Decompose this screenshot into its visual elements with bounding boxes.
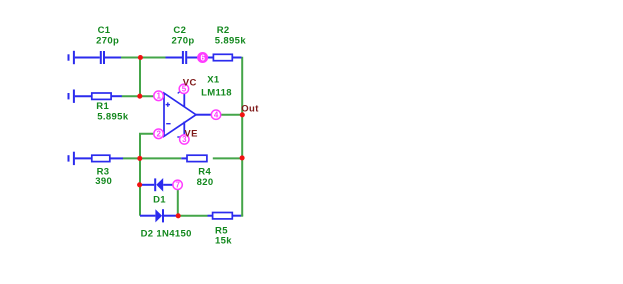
svg-text:270p: 270p [96, 35, 119, 46]
svg-text:820: 820 [197, 177, 214, 188]
svg-text:4: 4 [214, 111, 219, 120]
svg-text:5.895k: 5.895k [215, 35, 247, 46]
svg-text:VC: VC [183, 77, 197, 88]
svg-text:1: 1 [156, 92, 161, 101]
svg-text:D1: D1 [153, 195, 166, 206]
svg-text:15k: 15k [215, 236, 232, 247]
svg-text:R2: R2 [217, 25, 230, 36]
svg-text:5.895k: 5.895k [97, 112, 129, 123]
svg-text:C2: C2 [173, 25, 186, 36]
svg-text:2: 2 [156, 130, 161, 139]
svg-text:C1: C1 [98, 25, 111, 36]
svg-text:D2 1N4150: D2 1N4150 [141, 228, 192, 239]
svg-text:7: 7 [175, 181, 180, 190]
svg-text:LM118: LM118 [201, 88, 232, 99]
svg-text:390: 390 [95, 176, 112, 187]
svg-text:270p: 270p [172, 35, 195, 46]
svg-text:6: 6 [200, 53, 205, 62]
svg-text:R1: R1 [96, 101, 109, 112]
svg-text:X1: X1 [207, 75, 220, 86]
svg-text:Out: Out [241, 104, 259, 115]
svg-text:VE: VE [184, 128, 197, 139]
